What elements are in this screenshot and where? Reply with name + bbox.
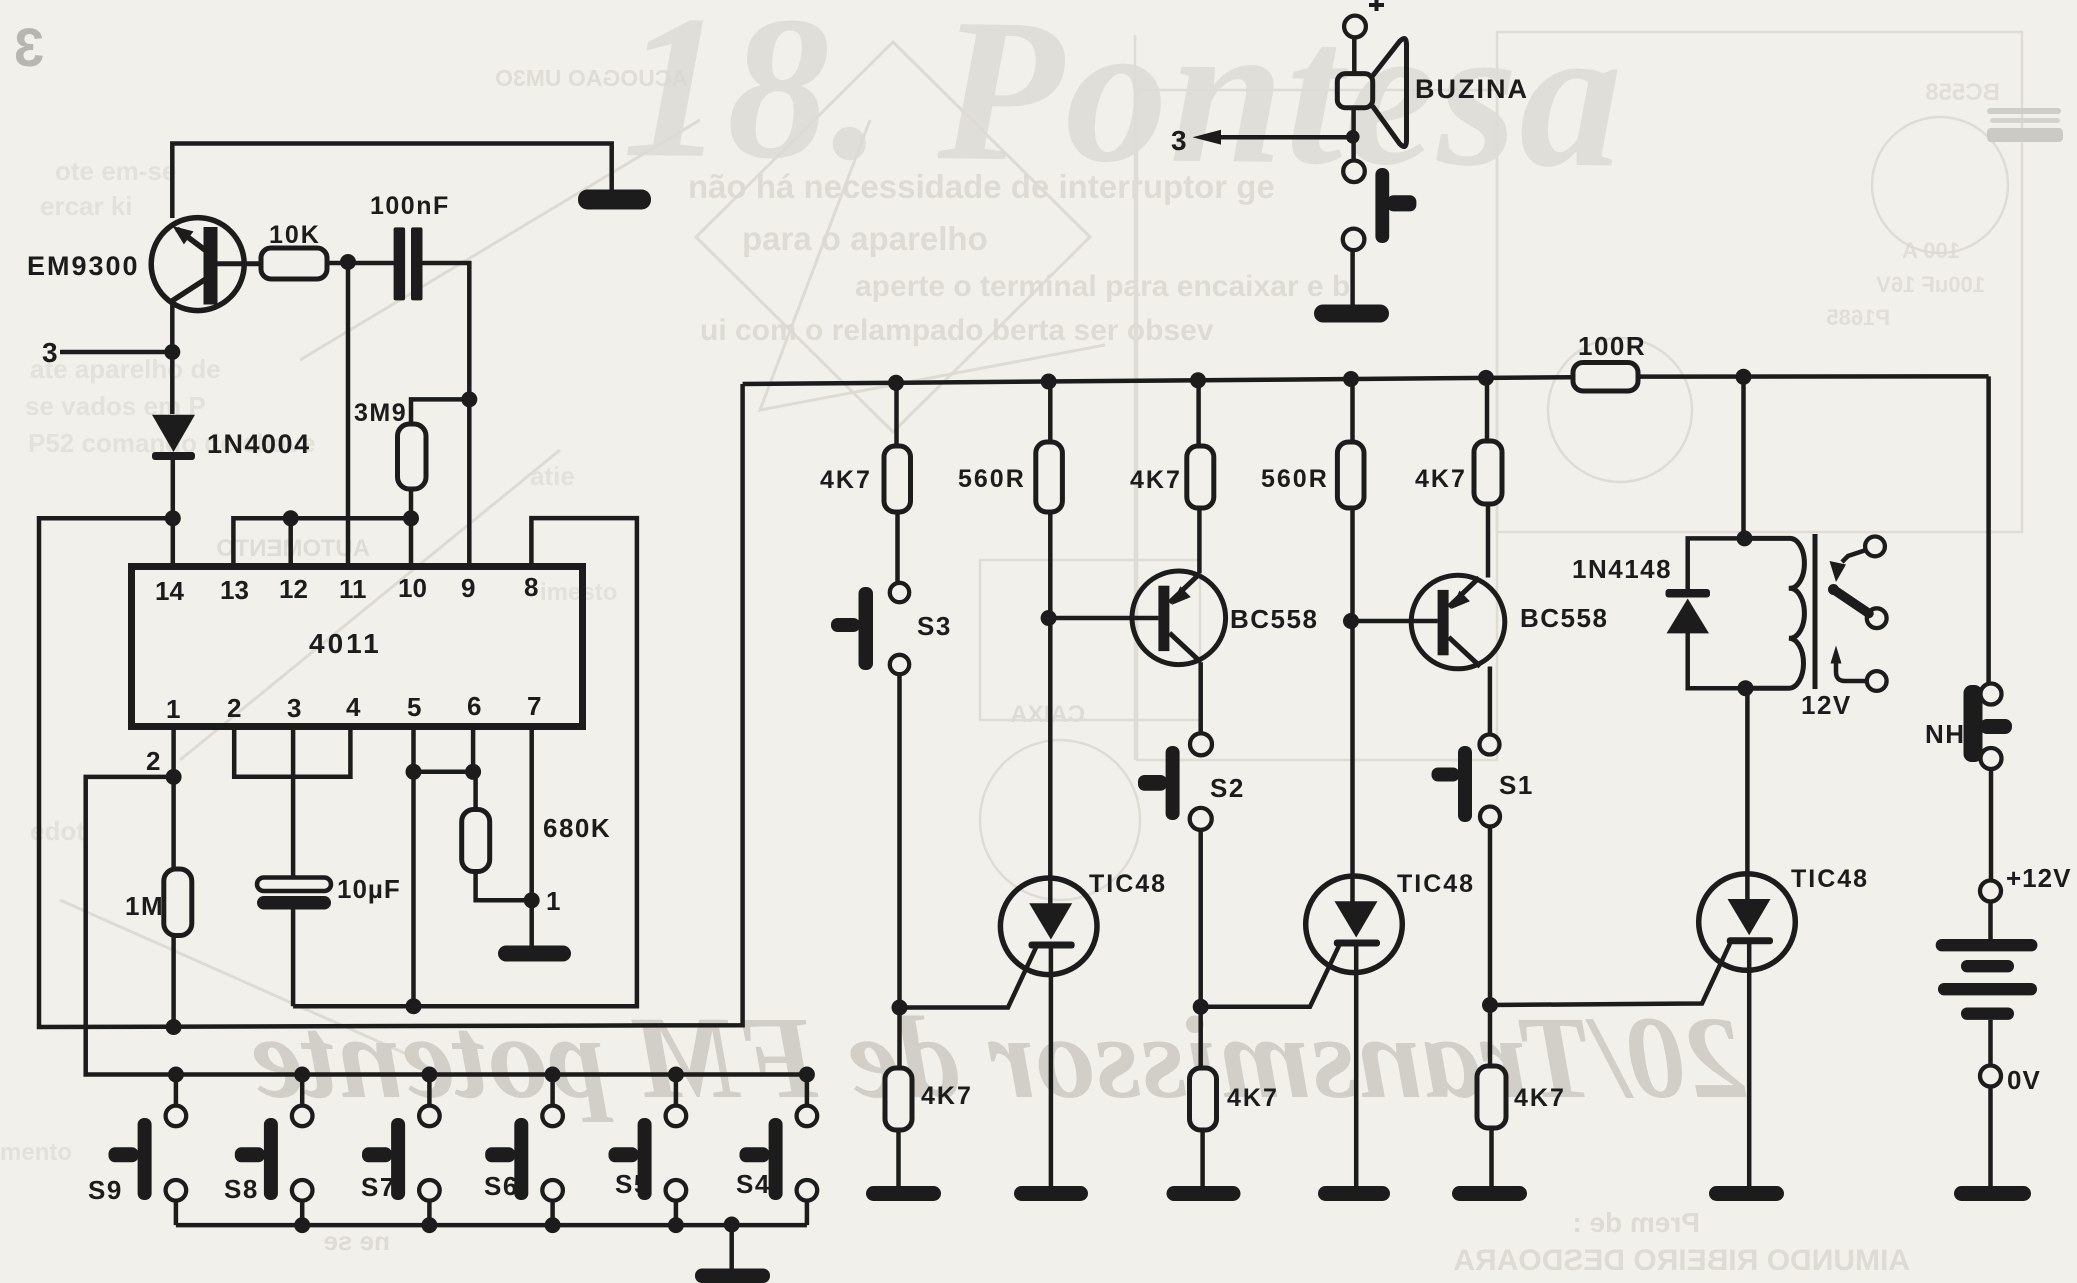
svg-text:BC558: BC558 <box>1925 79 2000 106</box>
pin numbers top row <box>155 572 538 606</box>
wire: base 2 link <box>1351 619 1438 624</box>
svg-text:AIMUNDO RIBEIRO DESDOARA: AIMUNDO RIBEIRO DESDOARA <box>1453 1244 1910 1277</box>
svg-text:4: 4 <box>346 692 361 722</box>
svg-text:ACUOGAO UM3O: ACUOGAO UM3O <box>495 65 688 91</box>
svg-text:3: 3 <box>14 18 44 78</box>
resistor R2 3M9 <box>398 424 427 489</box>
pushbutton (buzina switch) <box>1343 161 1417 251</box>
node 3 wire (left) <box>60 350 172 355</box>
svg-text:BC558: BC558 <box>1520 603 1608 633</box>
wire: 4K7 to ground <box>1489 1128 1494 1187</box>
resistor R13 4K7 <box>1477 1066 1506 1128</box>
svg-text:100nF: 100nF <box>370 192 450 220</box>
node + (buzina supply) <box>1369 0 1384 11</box>
node +12V terminal <box>1980 881 2001 902</box>
svg-text:4011: 4011 <box>309 628 382 659</box>
wire: 1M bottom to +V wire <box>171 936 176 1028</box>
svg-text:2: 2 <box>146 746 160 776</box>
junction: S5 bottom <box>668 1217 684 1233</box>
relay armature <box>1828 584 1887 628</box>
pushbutton S5 <box>609 1075 687 1226</box>
wire: pins 2-4 link <box>234 727 350 777</box>
wire: pin 5 drop <box>411 727 416 1006</box>
junction: relay bottom <box>1738 680 1754 696</box>
wire: BC558-2 collector to S1 <box>1488 667 1493 735</box>
SCR TIC48-3 <box>1699 874 1796 971</box>
wire: switch to ground <box>1350 250 1355 305</box>
junction: node 3 (buzina) <box>1346 130 1360 144</box>
resistor R12 4K7 <box>1474 441 1502 504</box>
svg-text:1N4148: 1N4148 <box>1572 554 1672 584</box>
junction: S7 bottom <box>421 1217 437 1233</box>
junction: diode / pin14 / +V <box>165 510 181 526</box>
pushbutton NH <box>1964 684 2013 770</box>
wire: speaker to node 3 <box>1351 108 1356 161</box>
svg-text:aperte o terminal para encaixa: aperte o terminal para encaixar e b <box>855 270 1350 303</box>
wire: +12V bus <box>743 376 1989 384</box>
wire: TIC48-3 cathode to ground <box>1747 943 1752 1186</box>
ground (switch bus) <box>695 1269 770 1283</box>
wire: 4K7 to S3 <box>895 512 900 583</box>
resistor R11 560R <box>1337 442 1364 508</box>
wire: base 1 link <box>1049 616 1159 621</box>
wire: pins 13-12-10 top bus <box>233 518 411 567</box>
wire: pin 3 to 10uF <box>291 727 296 878</box>
svg-text:10K: 10K <box>269 221 321 249</box>
wire: pin 8 hook to oscillator net <box>293 518 637 1006</box>
ground (S3 branch) <box>866 1186 941 1201</box>
wire: pin1 node to bottom switch bus <box>86 777 807 1075</box>
resistor R4 1M <box>164 869 192 936</box>
svg-text:680K: 680K <box>543 813 611 843</box>
svg-text:1: 1 <box>166 694 180 724</box>
svg-text:100 A: 100 A <box>1902 238 1960 263</box>
svg-text:560R: 560R <box>958 465 1026 493</box>
junction: bus / 4K7 branch 1 <box>1190 372 1206 388</box>
wire: bus right end down to NH <box>1986 376 1991 683</box>
wire: diode loop <box>1688 538 1746 688</box>
junction: 3M9 bottom / pin 10 <box>403 510 419 526</box>
diode D1 1N4004 <box>152 415 195 460</box>
junction: S3 / TIC48-1 gate <box>892 1000 908 1016</box>
junction: node 3 <box>164 344 180 360</box>
junction: base node 2 <box>1343 613 1359 629</box>
resistor R1 10K <box>261 248 394 279</box>
svg-text:ne se: ne se <box>324 1226 391 1256</box>
svg-text:10µF: 10µF <box>337 874 401 904</box>
svg-text:TIC48: TIC48 <box>1791 865 1869 893</box>
wire: TIC48-1 cathode to ground <box>1049 948 1054 1187</box>
svg-text:CAIXA: CAIXA <box>1010 701 1085 728</box>
wire: gate node to lower 4K7 <box>897 1008 902 1069</box>
pushbutton S7 <box>362 1075 440 1226</box>
junction: S2 / TIC48-2 gate <box>1193 999 1209 1015</box>
junction: pin1 / 1M / switch feed <box>166 769 182 785</box>
junction: pin5 lower / osc net <box>406 998 422 1014</box>
wire: 680K bottom to pin7 node <box>476 872 532 901</box>
wire: pin 14 drop <box>171 518 176 567</box>
wire: pin5-pin6 link <box>414 770 474 775</box>
svg-text:S1: S1 <box>1499 770 1534 800</box>
svg-text:TIC48: TIC48 <box>1089 870 1167 898</box>
wire: terminal to speaker <box>1352 38 1357 74</box>
junction: base node 1 <box>1041 610 1057 626</box>
wire: terminal to battery <box>1988 902 1993 940</box>
svg-text:4K7: 4K7 <box>1415 465 1467 493</box>
diode D2 1N4148 <box>1666 589 1711 633</box>
svg-text:mento: mento <box>0 1139 72 1166</box>
pushbutton S8 <box>235 1075 313 1226</box>
wire: 4K7 to BC558-2 emitter <box>1486 504 1491 578</box>
node 0V terminal <box>1980 1066 2001 1087</box>
svg-text:P1685: P1685 <box>1826 305 1890 330</box>
svg-text:11: 11 <box>339 574 367 604</box>
junction: S6 bottom <box>545 1217 561 1233</box>
svg-text:EM9300: EM9300 <box>27 251 140 281</box>
svg-text:NH: NH <box>1925 719 1966 749</box>
junction: S8 bottom <box>294 1217 310 1233</box>
svg-text:2: 2 <box>227 693 241 723</box>
ground (TIC48-3) <box>1709 1186 1784 1201</box>
wire: diode to +V rail junction <box>171 460 176 518</box>
resistor R3 680K <box>462 810 490 872</box>
ground (TIC48-2) <box>1318 1186 1390 1201</box>
junction: 100nF / 3M9 top <box>461 391 477 407</box>
switch block S9..S4 <box>109 1067 818 1283</box>
wire: 10uF bottom to oscillator net <box>291 910 296 1007</box>
wire: S2 to gate node 2 <box>1198 830 1203 1007</box>
wire: 4K7 to ground <box>1200 1130 1205 1187</box>
pushbutton S9 <box>109 1075 187 1226</box>
capacitor C1 100nF <box>394 227 423 300</box>
resistor R7 4K7 <box>885 1068 912 1130</box>
svg-text:S9: S9 <box>88 1175 123 1205</box>
svg-text:12V: 12V <box>1801 690 1852 720</box>
wire: pin 1 drop <box>171 727 176 777</box>
junction: pin 12 tap <box>283 510 299 526</box>
wire: 4K7 branch 1 upper <box>1196 380 1201 446</box>
wire: transistor top to ground (top-left) <box>172 144 611 219</box>
relay contact NO <box>1831 646 1887 691</box>
wire: S3 to gate node <box>897 674 902 1007</box>
svg-text:10: 10 <box>398 573 427 603</box>
wire: 4K7 to BC558-1 emitter <box>1197 508 1202 573</box>
svg-text:7: 7 <box>527 691 541 721</box>
junction: S1 / TIC48-3 gate <box>1482 997 1498 1013</box>
wire: switch bottom bus <box>176 1223 807 1228</box>
svg-text:4K7: 4K7 <box>921 1082 973 1110</box>
svg-text:4K7: 4K7 <box>1227 1084 1279 1112</box>
svg-text:BC558: BC558 <box>1230 604 1318 634</box>
ground (TIC48-1) <box>1014 1186 1088 1201</box>
svg-text:3: 3 <box>1171 125 1187 156</box>
svg-text:1: 1 <box>546 886 560 916</box>
svg-text:S3: S3 <box>917 611 952 641</box>
wire: +V routing (left outer loop to right riser) <box>39 384 743 1027</box>
svg-text:6: 6 <box>467 691 481 721</box>
wire: 100nF right plate to pin 9 <box>423 263 470 567</box>
svg-text:100uF 16V: 100uF 16V <box>1876 272 1985 297</box>
ground (top-left) <box>578 190 651 210</box>
battery B1 12V <box>1936 939 2038 1020</box>
wire: TIC48-3 gate <box>1490 944 1730 1006</box>
svg-text:S4: S4 <box>736 1169 771 1199</box>
pushbutton S3 <box>831 583 909 674</box>
svg-text:S2: S2 <box>1210 773 1245 803</box>
resistor R9 4K7 <box>1187 446 1214 508</box>
junction: ground tap <box>724 1217 740 1233</box>
junction: bus / 560R branch 2 <box>1343 371 1359 387</box>
node 3 arrow <box>1193 130 1353 145</box>
svg-text:Prem de :: Prem de : <box>1572 1207 1700 1238</box>
svg-text:para o aparelho: para o aparelho <box>742 220 988 257</box>
wire: pin1 node down through 1M <box>171 777 176 869</box>
wire: S3 branch upper <box>894 383 899 446</box>
svg-text:S8: S8 <box>224 1174 259 1204</box>
svg-text:3: 3 <box>287 693 301 723</box>
wire: 560R branch 1 (anode column) <box>1048 382 1053 905</box>
junction: bus / relay branch <box>1736 369 1752 385</box>
svg-text:8: 8 <box>524 572 538 602</box>
svg-text:ercar ki: ercar ki <box>40 191 133 221</box>
wire: 0V to ground <box>1988 1087 1993 1187</box>
svg-text:560R: 560R <box>1261 465 1329 493</box>
svg-text:1M: 1M <box>125 891 164 921</box>
junction: S8 top <box>294 1067 310 1083</box>
wire: 10K output to pin 11 <box>346 263 351 567</box>
svg-text:0V: 0V <box>2007 1065 2041 1095</box>
labels S9..S4 <box>88 1169 771 1205</box>
svg-text:12: 12 <box>279 574 308 604</box>
svg-text:9: 9 <box>461 573 475 603</box>
junction: relay top <box>1737 530 1753 546</box>
wire: gate node 2 to lower 4K7 <box>1198 1007 1203 1068</box>
resistor R10 4K7 <box>1190 1068 1217 1130</box>
junction: pin5 upper <box>406 764 422 780</box>
pushbutton S2 <box>1138 733 1212 830</box>
svg-text:4K7: 4K7 <box>1514 1084 1566 1112</box>
IC U1 4011 body <box>132 567 583 727</box>
svg-text:S7: S7 <box>361 1172 396 1202</box>
svg-text:não há necessidade de interrup: não há necessidade de interruptor ge <box>688 168 1275 205</box>
buzina (horn) symbol <box>1337 38 1406 146</box>
relay RL1 coil <box>1745 538 1805 688</box>
ground (pin 7) <box>498 946 571 962</box>
resistor R8 560R <box>1036 442 1063 512</box>
pushbutton S6 <box>485 1075 563 1226</box>
wire: emitter/collector vertical at x=172 <box>170 305 175 414</box>
svg-text:ote em-se: ote em-se <box>55 156 176 186</box>
ground (buzina switch) <box>1314 305 1389 323</box>
svg-text:atie: atie <box>530 461 575 491</box>
wire: ground tap drop <box>729 1225 734 1269</box>
junction: bus / 560R branch 1 <box>1041 374 1057 390</box>
junction: S9 top <box>168 1067 184 1083</box>
svg-text:BUZINA: BUZINA <box>1415 74 1529 104</box>
pushbutton S1 <box>1432 735 1501 827</box>
buzina terminal circle <box>1344 16 1366 38</box>
svg-text:S5: S5 <box>615 1169 650 1199</box>
ground (S2 branch) <box>1167 1186 1241 1201</box>
svg-text:ate aparelho de: ate aparelho de <box>30 354 221 384</box>
svg-text:4K7: 4K7 <box>1130 466 1182 494</box>
wire: TIC48-2 cathode to ground <box>1354 946 1359 1187</box>
wire: NH to +12V terminal <box>1989 769 1994 881</box>
svg-text:3M9: 3M9 <box>354 399 407 427</box>
resistor R5 100R <box>1573 363 1638 392</box>
junction: S6 top <box>545 1067 561 1083</box>
SCR TIC48-1 <box>1000 878 1097 975</box>
wire: pin 7 to ground <box>529 727 534 946</box>
wire: gate node 3 to lower 4K7 <box>1488 1005 1493 1066</box>
svg-text:+12V: +12V <box>2006 863 2071 893</box>
wire: TIC48-2 gate <box>1201 946 1339 1007</box>
junction: S7 top <box>421 1067 437 1083</box>
transistor Q1 EM9300 <box>151 218 261 311</box>
svg-text:100R: 100R <box>1578 331 1646 361</box>
wire: relay bottom to TIC48-3 <box>1745 688 1750 902</box>
junction: pin7 / 680K (node 1) <box>524 892 540 908</box>
wire: TIC48-1 gate <box>900 948 1037 1008</box>
wire: 3M9 top link <box>411 399 469 424</box>
svg-text:5: 5 <box>407 692 421 722</box>
svg-text:3: 3 <box>42 337 58 368</box>
svg-text:imesto: imesto <box>540 579 617 606</box>
SCR TIC48-2 <box>1306 876 1403 973</box>
transistor Q3 BC558 <box>1411 575 1505 669</box>
junction: bus / S3 branch <box>888 375 904 391</box>
wire: 560R branch 2 (anode column) <box>1350 379 1355 902</box>
svg-text:1N4004: 1N4004 <box>207 429 311 459</box>
junction: pin 6 <box>465 764 481 780</box>
relay core bar <box>1813 534 1818 689</box>
wire: 4K7 to ground <box>896 1130 901 1187</box>
wire: battery to 0V terminal <box>1988 1020 1993 1066</box>
svg-text:4K7: 4K7 <box>820 466 872 494</box>
svg-text:TIC48: TIC48 <box>1397 870 1475 898</box>
junction: S5 top <box>668 1067 684 1083</box>
capacitor C2 10uF <box>257 878 331 910</box>
transistor Q2 BC558 <box>1132 571 1226 665</box>
junction: S4 top <box>799 1067 815 1083</box>
junction: bus / 4K7 branch 2 <box>1478 370 1494 386</box>
wire: 4K7 branch 2 upper <box>1485 378 1490 441</box>
svg-text:14: 14 <box>155 576 184 606</box>
ground (battery) <box>1954 1186 2031 1201</box>
relay contact NC <box>1830 537 1885 583</box>
wire: pin 6 drop to 680K <box>473 727 476 810</box>
svg-text:13: 13 <box>220 575 249 605</box>
ground (S1 branch) <box>1452 1186 1527 1201</box>
junction: 1M bottom <box>166 1019 182 1035</box>
wire: S1 to gate node 3 <box>1488 827 1493 1006</box>
wire: BC558-1 collector to S2 <box>1198 662 1203 733</box>
svg-text:S6: S6 <box>484 1171 519 1201</box>
resistor R6 4K7 <box>884 446 911 512</box>
wire: bus to relay coil <box>1741 377 1746 539</box>
junction: 10K / 100nF / pin11 <box>340 254 356 270</box>
wire: 3M9 bottom stub <box>409 489 414 518</box>
pin numbers bottom row <box>166 691 541 724</box>
pushbutton S4 <box>740 1075 818 1226</box>
